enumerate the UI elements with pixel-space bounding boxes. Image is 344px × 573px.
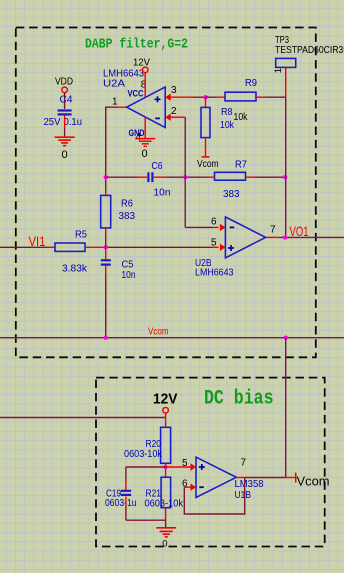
resistor R21 xyxy=(161,477,171,508)
power 12V terminal (U2A supply) xyxy=(142,67,148,73)
junction node B (pin3/R9/R8) xyxy=(203,95,207,99)
svg-text:Vcom: Vcom xyxy=(297,473,330,488)
svg-text:7: 7 xyxy=(241,458,247,469)
pin arrow U2B pin6 xyxy=(220,224,226,231)
svg-text:0.1u: 0.1u xyxy=(64,116,83,128)
wire VI1 input segment xyxy=(0,246,47,248)
svg-text:1: 1 xyxy=(112,96,118,107)
svg-text:R7: R7 xyxy=(235,158,247,170)
svg-text:Vcom: Vcom xyxy=(197,158,219,170)
wire R9 right to TP corner xyxy=(266,96,286,98)
wire U1B feedback loop xyxy=(184,478,244,515)
wire R8 bottom Vcom terminal stub xyxy=(205,138,207,157)
wire C6 left xyxy=(106,176,138,178)
wire C6 right to R7 left xyxy=(166,176,207,178)
DC bias subcircuit dashed border box xyxy=(96,378,325,547)
svg-text:2: 2 xyxy=(171,106,177,117)
wire C19 top red stub xyxy=(125,481,127,490)
pin arrow U1B pin5 xyxy=(191,463,197,470)
wire R9 right red stub xyxy=(256,96,266,98)
wire R9 left red stub xyxy=(217,96,225,98)
wire 12V to R20 xyxy=(165,413,167,427)
wire U2B output red stub xyxy=(266,236,280,238)
svg-text:Vcom: Vcom xyxy=(148,325,169,337)
wire C5 to Vcom rail xyxy=(105,274,107,338)
svg-text:3.83k: 3.83k xyxy=(62,262,88,274)
wire Vcom rail down to DC bias output xyxy=(285,338,287,478)
op-amp U2A xyxy=(127,87,166,128)
svg-text:R8: R8 xyxy=(221,106,233,118)
wire TP3 stub xyxy=(285,67,287,97)
svg-text:VO1: VO1 xyxy=(290,223,309,239)
wire U2B pin5 red stub xyxy=(212,246,219,248)
resistor R7 xyxy=(215,172,246,180)
wire VO1 output xyxy=(280,236,344,238)
svg-text:DC bias: DC bias xyxy=(204,388,274,411)
svg-text:3: 3 xyxy=(171,85,177,96)
svg-text:10k: 10k xyxy=(234,111,249,123)
svg-text:C4: C4 xyxy=(60,93,73,105)
ground symbol (C4) xyxy=(55,137,75,146)
wire U1B output to Vcom node xyxy=(245,477,286,479)
wire VDD to C4 xyxy=(64,93,66,109)
wire right rail TP3 to VO1 xyxy=(285,97,287,237)
wire U2B pin6 red stub xyxy=(213,226,219,228)
wire U2A pin3 red segment xyxy=(171,96,194,98)
power terminal VDD xyxy=(62,87,68,93)
wire R5 right stub to node A xyxy=(85,246,106,248)
wire C6 right red stub xyxy=(154,176,166,178)
svg-text:U1B: U1B xyxy=(235,489,252,501)
svg-text:C6: C6 xyxy=(152,160,163,172)
junction C6 right / pin2 rail xyxy=(183,175,187,179)
ground symbol (DC bias) xyxy=(156,528,176,537)
wire R5 left stub xyxy=(47,246,55,248)
wire U2A pin2 red stub xyxy=(171,116,186,118)
wire C19 left vertical upper xyxy=(125,467,127,481)
svg-text:10n: 10n xyxy=(154,186,171,198)
svg-text:LMH6643: LMH6643 xyxy=(195,266,234,278)
wire Vcom terminal red stub xyxy=(286,477,296,479)
svg-text:25V: 25V xyxy=(44,116,61,128)
filter subcircuit dashed border box xyxy=(16,28,316,358)
resistor R9 xyxy=(225,92,256,101)
wire R6 bottom to node A xyxy=(105,233,107,247)
svg-text:0603-10k: 0603-10k xyxy=(145,497,184,509)
svg-text:383: 383 xyxy=(119,210,136,222)
svg-text:R6: R6 xyxy=(121,197,133,209)
wire GND pin stub xyxy=(144,117,146,138)
svg-text:5: 5 xyxy=(182,458,188,469)
svg-text:TESTPAD60CIR35: TESTPAD60CIR35 xyxy=(275,44,344,56)
wire node C to C19 xyxy=(126,466,166,468)
svg-text:12V: 12V xyxy=(133,56,150,68)
svg-text:7: 7 xyxy=(270,224,276,235)
wire U2B pin6 horizontal xyxy=(185,226,213,228)
svg-text:R9: R9 xyxy=(245,77,257,89)
junction node A xyxy=(104,245,108,249)
svg-text:5: 5 xyxy=(211,237,217,248)
capacitor C19 xyxy=(121,491,131,495)
wire C5 bottom stub xyxy=(105,266,107,274)
wire U1B pin6 red stub xyxy=(184,486,190,488)
capacitor C4 xyxy=(58,111,72,115)
svg-text:0: 0 xyxy=(62,149,68,161)
svg-text:R5: R5 xyxy=(75,229,87,241)
svg-text:LMH6643: LMH6643 xyxy=(103,67,144,79)
svg-text:12V: 12V xyxy=(153,391,178,407)
wire U1B output red stub xyxy=(236,477,244,479)
resistor R8 xyxy=(201,107,210,137)
wire U2A output red stub xyxy=(117,106,127,108)
wire VCC pin stub xyxy=(144,73,146,97)
svg-text:0: 0 xyxy=(142,148,148,160)
junction C5 on Vcom rail xyxy=(104,336,108,340)
wire C6 left red stub xyxy=(138,176,147,178)
terminal tick (Vcom output) xyxy=(295,473,297,483)
pin arrow U2A pin2 xyxy=(165,114,171,121)
wire C19 bottom to ground leg xyxy=(126,519,166,521)
resistor R6 xyxy=(101,195,111,228)
svg-text:8: 8 xyxy=(141,79,147,90)
op-amp U1B xyxy=(196,457,236,497)
wire C5 top stub xyxy=(105,247,107,259)
terminal tick (R8 Vcom) xyxy=(202,156,210,158)
wire R21 bottom red stub xyxy=(165,508,167,520)
svg-text:10n: 10n xyxy=(122,269,136,281)
wire U2A pin3 to node B xyxy=(193,96,206,98)
wire R6 top stub xyxy=(105,191,107,196)
wire C19 bottom red stub xyxy=(125,497,127,505)
wire U2A output run down left rail xyxy=(106,107,117,191)
wire R7 left red stub xyxy=(207,176,215,178)
junction Vcom rail to DC bias xyxy=(284,336,288,340)
svg-text:DABP filter,G=2: DABP filter,G=2 xyxy=(85,38,188,53)
svg-text:VDD: VDD xyxy=(55,75,73,87)
wire node A to U2B pin5 xyxy=(106,246,212,248)
svg-text:10k: 10k xyxy=(220,119,235,131)
capacitor C5 xyxy=(101,260,111,264)
wire R20 bottom to R21 top xyxy=(165,463,167,477)
wire R8 top red stub xyxy=(205,97,207,107)
capacitor C6 xyxy=(148,172,152,182)
wire U1B pin5 xyxy=(166,466,191,468)
pin arrow U1B pin6 xyxy=(191,484,197,491)
svg-text:0603-1u: 0603-1u xyxy=(105,497,137,509)
wire C4 bottom stub red xyxy=(64,115,66,128)
svg-text:0603-10k: 0603-10k xyxy=(124,448,163,460)
svg-text:0: 0 xyxy=(162,538,167,549)
testpad TP3 xyxy=(276,58,296,67)
svg-text:VI1: VI1 xyxy=(29,233,46,249)
wire C4 to ground xyxy=(64,128,66,137)
wire pin2 vertical rail xyxy=(184,117,186,227)
ground symbol (U2A) xyxy=(135,139,155,147)
wire R6 bottom stub xyxy=(105,228,107,234)
svg-text:383: 383 xyxy=(223,188,240,200)
wire node B to R9 xyxy=(206,96,217,98)
junction VO1 xyxy=(283,235,287,239)
resistor R20 xyxy=(161,427,171,463)
wire R21 to ground symbol xyxy=(165,520,167,528)
power 12V terminal (DC bias) xyxy=(163,408,169,414)
wire R7 right red stub xyxy=(246,176,256,178)
op-amp U2B xyxy=(225,217,265,258)
junction C6 left node xyxy=(104,175,108,179)
wire C19 bottom vertical lower xyxy=(125,504,127,520)
svg-text:6: 6 xyxy=(211,216,217,227)
resistor R5 xyxy=(55,243,85,251)
wire R7 right to rail xyxy=(256,176,286,178)
pin arrow U2A pin3 xyxy=(165,94,171,101)
junction R7 right rail xyxy=(283,175,287,179)
svg-text:1: 1 xyxy=(273,68,284,73)
wire Vcom rail xyxy=(0,337,344,339)
wire DC bias input xyxy=(0,417,166,419)
pin arrow U2B pin5 xyxy=(220,244,226,251)
junction node C (R20/R21/C19/pin5) xyxy=(163,465,167,469)
